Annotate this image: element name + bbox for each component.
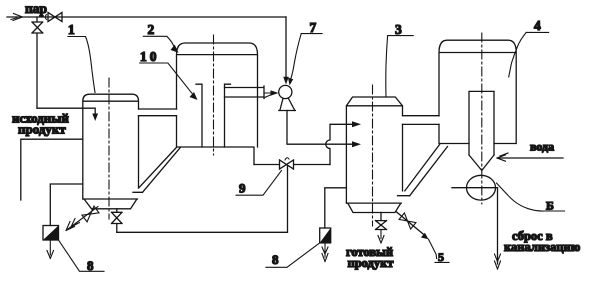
svg-text:9: 9 [239, 181, 246, 196]
label Б [497, 183, 565, 211]
arrow finished product [378, 230, 384, 244]
svg-text:10: 10 [140, 49, 160, 64]
svg-text:5: 5 [438, 250, 444, 264]
vessel 1 bottom [83, 192, 143, 209]
svg-text:8: 8 [272, 252, 279, 267]
wire feed line [21, 139, 83, 200]
pump Б [467, 175, 496, 200]
label 5 [429, 239, 450, 262]
vessel 4 center line [481, 33, 483, 204]
label 9 [236, 171, 282, 196]
valve 9 [254, 160, 330, 169]
arrow feed down inside vessel 1 [92, 114, 98, 122]
vessel 3 bottom [346, 196, 409, 213]
wire steam header [7, 16, 286, 18]
wire sight-glass line vessel 3 [325, 188, 347, 228]
arrow below sight glass right [322, 243, 328, 262]
wire circulation pipe vessel2 to vessel1 [139, 147, 181, 192]
svg-text:1: 1 [68, 22, 75, 37]
arrow pipe to pump [264, 93, 271, 98]
vessel 4 inner tube [469, 91, 494, 155]
wire steam to vessel 1 [37, 108, 95, 116]
svg-text:4: 4 [534, 18, 541, 33]
arrow into vessel 3 upper [352, 121, 361, 127]
pump 7 [279, 85, 292, 98]
valve drain vessel 1 [112, 209, 123, 233]
vessel 3 center line [372, 85, 374, 226]
arrow below sight glass left [47, 240, 54, 259]
wire water line [498, 157, 564, 159]
valve outlet right of vessel 3 to 5 [396, 212, 426, 237]
label 8 left [59, 240, 105, 271]
vessel 1 separator [83, 94, 139, 199]
valve drain vessel 3 [376, 213, 387, 230]
wire vapor duct vessel1 to vessel2 [139, 109, 177, 116]
svg-text:канализацию: канализацию [504, 240, 581, 254]
svg-text:продукт: продукт [18, 122, 66, 137]
wire pump discharge [287, 111, 352, 145]
arrow steam inlet [11, 14, 23, 21]
vessel 2 tubes [196, 84, 231, 147]
svg-text:продукт: продукт [348, 256, 394, 270]
svg-text:Б: Б [546, 199, 554, 213]
valve on steam header [48, 13, 62, 22]
wire circulation pipe vessel4 to vessel3 [405, 145, 448, 196]
vessel 1 center line [108, 78, 110, 219]
svg-text:вода: вода [530, 140, 554, 154]
vessel 2 center line [213, 35, 215, 155]
sight glass 8 right [320, 228, 331, 243]
wire sight-glass line vessel 1 [50, 184, 83, 226]
sight glass 8 left [43, 226, 59, 241]
svg-text:8: 8 [87, 258, 94, 273]
vessel 3 separator [346, 97, 402, 203]
svg-text:пар: пар [25, 1, 47, 16]
vessel 2 heating chamber [177, 43, 258, 165]
label 8 right [266, 243, 320, 267]
cone of inner tube [469, 155, 494, 171]
wire sewer discharge [497, 188, 499, 264]
valve steam branch [32, 17, 43, 108]
arrow steam header down to pump [285, 17, 287, 78]
svg-text:3: 3 [395, 22, 402, 37]
svg-text:7: 7 [310, 20, 317, 35]
wire product transfer line [117, 166, 288, 232]
valve outlet left of vessel 1 [66, 207, 98, 231]
wire valve 9 to vessel 3 upper inlet with crossover [326, 124, 352, 164]
pipe vessel 2 to pump [225, 86, 265, 99]
arrow water [497, 153, 508, 161]
arrow into vessel 3 lower [352, 141, 361, 147]
vessel 4 condenser [439, 40, 516, 143]
svg-text:2: 2 [148, 22, 155, 37]
wire vapor duct vessel3 to vessel4 [403, 116, 440, 125]
